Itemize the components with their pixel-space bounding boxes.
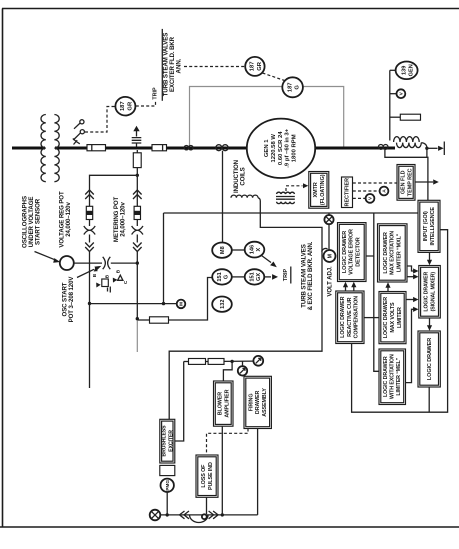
wire [89, 190, 91, 206]
pot P2 lower chevrons [133, 243, 142, 252]
wire logic drawer to loop [428, 387, 430, 412]
wire intelligence line (long horizontal) [164, 212, 419, 214]
node junction dot [162, 302, 165, 305]
node junction dot on reg pot line [88, 302, 91, 305]
svg-text:G: G [295, 85, 301, 90]
pot P1 lower chevrons [85, 243, 94, 252]
relay 187 G [282, 77, 303, 97]
wire bus segment 1 [12, 147, 45, 150]
dashed wires rectifier to meters [353, 182, 397, 184]
wire 151G to 151GX [232, 276, 245, 278]
potentiometer P2 element [134, 206, 140, 219]
svg-text:(FLOATING): (FLOATING) [320, 174, 326, 205]
svg-text:START SENSOR: START SENSOR [35, 198, 42, 245]
generator GEN 1 [247, 119, 315, 178]
svg-text:LOSS OF: LOSS OF [201, 464, 207, 488]
wire reactive comp feedback loop [352, 230, 448, 413]
svg-text:WITH EXCITATION: WITH EXCITATION [390, 354, 396, 399]
svg-text:COILS: COILS [240, 167, 247, 185]
resistor R5 [208, 359, 224, 365]
svg-text:187: 187 [120, 101, 126, 111]
relay 132 [212, 297, 232, 312]
meter (firing feedback 2) [253, 356, 263, 366]
svg-text:RECTIFIER: RECTIFIER [345, 178, 351, 207]
voltage reg pot wiper chevrons [85, 190, 94, 199]
svg-text:EXCITER: EXCITER [168, 430, 174, 452]
wire firing drawer down [257, 429, 259, 515]
wire bus tap down to relay M8 [222, 151, 224, 243]
node junction dot [230, 360, 233, 363]
dashed wire firing drawer to loss of pulse [207, 429, 249, 455]
phase tap cluster A (square) [96, 283, 101, 288]
wire blower amplifier down [221, 426, 223, 515]
wire metering line down [136, 252, 138, 319]
svg-text:132: 132 [220, 300, 226, 309]
wire R2 to 151G chain [169, 278, 213, 321]
svg-text:151: 151 [217, 272, 223, 281]
CT pair at zone left foot [184, 146, 188, 150]
relay 139 GEN [390, 69, 396, 71]
svg-text:M: M [327, 254, 333, 258]
node junction dot (blower) [221, 513, 224, 516]
node junction dot metering line [136, 317, 139, 320]
relay 187 GR (top) [245, 57, 264, 76]
motor M osc start drive [177, 300, 186, 309]
svg-text:VOLTAGE ERROR: VOLTAGE ERROR [349, 229, 355, 275]
svg-text:XMTR: XMTR [313, 182, 319, 197]
potentiometer P1 element [86, 206, 92, 219]
wire metering gray tail [136, 320, 138, 352]
relay 146 X [245, 242, 265, 258]
dashed wire 187GR to TRIP label [136, 101, 156, 107]
node junction dot [136, 174, 139, 177]
wire to meters [224, 360, 253, 362]
node junction dot [425, 147, 428, 150]
svg-text:LIMITER “MXL”: LIMITER “MXL” [397, 233, 403, 272]
generator zone bracket (gray) [190, 87, 344, 148]
box INPUT (GOI) INTELLIGENCE [418, 200, 440, 252]
wire detector output [366, 213, 374, 256]
wire field instrument chain [389, 70, 391, 140]
CT pair at intelligence tap [378, 145, 383, 150]
exciter sub box [160, 465, 175, 475]
wire to volt adj motor [328, 224, 330, 250]
meter V (field) [390, 93, 397, 95]
svg-text:M8: M8 [220, 246, 226, 254]
switch contact foot [73, 139, 80, 145]
transformer T1 secondary winding [54, 115, 59, 182]
box LOGIC DRAWER REACTIVE CUR COMPENSATION [336, 291, 364, 344]
wire junction to voltage reg pot [90, 175, 138, 190]
wire junction down to intelligence wire [426, 148, 428, 157]
resistor R2 [150, 317, 169, 323]
arrow temp rec output [415, 181, 433, 183]
metering pot wiper chevrons [133, 190, 142, 199]
wire connector to metering line [111, 262, 138, 264]
shaft coupling chevrons left [180, 511, 190, 519]
dashed wire switch to relay 187GR [85, 107, 115, 133]
svg-text:& EXC FIELD BKR. ANN.: & EXC FIELD BKR. ANN. [307, 241, 314, 310]
shaft coupling chevrons right [209, 511, 219, 519]
meter (firing feedback 1) [238, 366, 247, 375]
box BLOWER AMPLIFIER [214, 381, 234, 426]
svg-text:1800 RPM: 1800 RPM [291, 134, 297, 162]
underline rule of trip list [161, 29, 163, 101]
svg-text:LOGIC DRAWER: LOGIC DRAWER [383, 356, 389, 397]
dashed wire ann to relay 187GR top [184, 66, 245, 68]
svg-text:GEN FLD: GEN FLD [401, 170, 407, 194]
wire sensor to connector [74, 262, 102, 264]
svg-text:ANN.: ANN. [175, 58, 182, 73]
wire detector output to MEL [374, 256, 379, 371]
phase tap cluster B [94, 267, 98, 271]
undervoltage sensor circle [60, 256, 74, 270]
box XMTR (FLOATING) [309, 172, 329, 209]
shaft coupling arc [190, 515, 209, 523]
svg-text:24,000–120v: 24,000–120v [65, 202, 72, 237]
svg-text:VOLT ADJ.: VOLT ADJ. [327, 266, 334, 297]
svg-text:GEN 1: GEN 1 [264, 139, 270, 157]
svg-text:REACTIVE CUR: REACTIVE CUR [347, 297, 353, 336]
box BRUSHLESS EXCITER [160, 419, 175, 463]
svg-text:LOGIC DRAWER: LOGIC DRAWER [427, 338, 433, 380]
wire to resistor R2 [137, 319, 149, 321]
wire to brushless exciter side [175, 362, 184, 442]
svg-text:BLOWER: BLOWER [218, 392, 224, 416]
pot P2 coupling curls [132, 226, 143, 235]
svg-text:DETECTOR: DETECTOR [355, 237, 361, 266]
svg-text:(SIGNAL MIXER): (SIGNAL MIXER) [430, 272, 436, 312]
resistor R4 [189, 359, 206, 365]
box LOSS OF PULSE IND [196, 455, 218, 497]
svg-text:GEN: GEN [408, 64, 414, 76]
svg-text:GR: GR [127, 101, 133, 111]
svg-text:139: 139 [401, 66, 407, 75]
box LOGIC DRAWER (lower) [418, 331, 440, 387]
svg-text:187: 187 [287, 82, 293, 92]
wire junction to blower amplifier [223, 361, 232, 381]
svg-text:LIMITER: LIMITER [397, 307, 403, 328]
svg-text:PMG: PMG [165, 480, 171, 491]
transformer T1 primary winding [41, 115, 46, 182]
svg-text:LIMITER “MEL”: LIMITER “MEL” [396, 357, 402, 395]
volt adj tap circle [328, 213, 330, 215]
node junction dot [136, 261, 139, 264]
svg-text:AMPLIFIER: AMPLIFIER [224, 389, 230, 417]
arrow signal mixer to logic drawer [429, 318, 431, 327]
svg-text:DRAWER: DRAWER [255, 391, 261, 415]
svg-text:24,000–120v: 24,000–120v [120, 202, 127, 237]
dashed wire PT to XMTR box [286, 186, 303, 191]
relay M8 [212, 243, 232, 258]
svg-text:COMPENSATION: COMPENSATION [354, 296, 360, 339]
svg-text:MAX VOLTS: MAX VOLTS [390, 302, 396, 333]
wire pmg to shaft line [166, 492, 168, 515]
phase tap cluster C (triangle) [113, 278, 118, 283]
svg-text:TRIP: TRIP [153, 87, 159, 100]
wire reactive comp to max volts [364, 317, 379, 319]
generator PMG [161, 479, 174, 492]
generator field winding [394, 137, 420, 142]
box LOGIC DRAWER (SIGNAL MIXER) [419, 266, 441, 319]
box GEN FLD TEMP REC [397, 165, 415, 201]
disconnect switch blade 1 [74, 123, 80, 129]
fuse F2 on bus [152, 145, 167, 151]
svg-text:G: G [224, 275, 230, 279]
svg-text:ASSEMBLY: ASSEMBLY [262, 388, 268, 417]
relay 151 GX [245, 269, 265, 284]
svg-text:LOGIC DRAWER: LOGIC DRAWER [383, 297, 389, 339]
arrow max volts to MXL [387, 288, 389, 293]
wire exciter supply corner [184, 361, 189, 363]
box LOGIC DRAWER VOLTAGE ERROR DETECTOR [338, 223, 367, 282]
disconnect switch blade 2 [73, 133, 80, 140]
border bottom [0, 526, 459, 528]
arrow reactive comp to detector 2 [353, 287, 355, 292]
PT transformer (floating xmtr source) [277, 192, 295, 194]
surge arrester [132, 138, 142, 143]
svg-text:0.60 SCR 24: 0.60 SCR 24 [278, 131, 284, 165]
svg-text:TEMP REC: TEMP REC [407, 168, 413, 196]
meter V (exciter) [366, 194, 375, 203]
svg-text:146: 146 [249, 245, 255, 254]
box LOGIC DRAWER WITH EXCITATION LIMITER MEL [379, 349, 406, 405]
arrow reactive comp to detector 1 [345, 287, 347, 292]
arrow 146X to trip [262, 256, 272, 263]
wire osc start horizontal [90, 303, 177, 305]
svg-text:X: X [256, 247, 262, 251]
svg-text:POT 3–208 120V: POT 3–208 120V [68, 276, 75, 323]
wire bus segment 3 (generator to field coil) [315, 147, 396, 150]
svg-text:INPUT (GOI): INPUT (GOI) [423, 211, 429, 241]
node junction dot (pmg) [166, 513, 169, 516]
relay 151 G [212, 269, 232, 284]
arrow max volts to signal mixer [406, 299, 414, 301]
svg-text:FIRING: FIRING [248, 394, 254, 412]
wire resistor to junction [136, 168, 138, 176]
wire induction coils to exciter feed [169, 198, 322, 419]
wire field to ground [421, 143, 427, 149]
ground (field) [427, 147, 438, 149]
box LOGIC DRAWER MAX EXCITATION LIMITER MXL [378, 224, 408, 282]
CT pair at M8 tap [216, 145, 222, 151]
svg-text:MAX EXCITATION: MAX EXCITATION [390, 231, 396, 275]
box LOGIC DRAWER MAX VOLTS LIMITER [379, 292, 406, 344]
pot P1 coupling curls [84, 226, 95, 235]
meter A (exciter) [380, 187, 389, 196]
svg-text:PULSE IND: PULSE IND [208, 462, 214, 490]
arrow pointer to connector [77, 269, 94, 277]
border top [2, 8, 459, 10]
svg-text:GX: GX [256, 273, 262, 281]
wire metering pot line [136, 175, 138, 190]
arrow input to signal mixer [429, 252, 431, 261]
svg-text:M: M [179, 302, 184, 306]
arrow MEL to signal mixer (riser) [406, 309, 415, 382]
induction coils winding [231, 195, 258, 198]
dashed wire 187GR to 187G [263, 73, 285, 81]
wire voltage-reg line down [89, 252, 91, 389]
svg-text:.9 pf –60 in 3+: .9 pf –60 in 3+ [285, 128, 291, 167]
svg-text:187: 187 [250, 62, 256, 72]
svg-text:GR: GR [257, 61, 263, 71]
arrow label to sensor circle [35, 252, 56, 260]
svg-text:LOGIC DRAWER: LOGIC DRAWER [383, 232, 389, 274]
wire riser to intelligence line [163, 213, 165, 304]
svg-text:LOGIC DRAWER: LOGIC DRAWER [342, 231, 348, 273]
svg-text:TRIP: TRIP [283, 268, 289, 281]
box RECTIFIER [342, 177, 353, 208]
shaft ground circle [150, 510, 161, 521]
box FIRING DRAWER ASSEMBLY [244, 376, 271, 428]
wire bus tap to input intelligence [385, 149, 428, 200]
resistor R1 (metering dropping resistor) [133, 153, 141, 168]
svg-text:A: A [382, 189, 388, 193]
resistor R3 (field) [390, 116, 401, 118]
svg-text:BRUSHLESS: BRUSHLESS [162, 425, 168, 457]
arrow 151GX to trip [264, 276, 271, 278]
connector break symbol [103, 257, 111, 269]
fuse F1 on bus [87, 145, 106, 151]
svg-text:1220.58 W: 1220.58 W [271, 134, 277, 163]
border left [2, 9, 4, 528]
wire M8 to 146X [232, 249, 245, 251]
svg-text:151: 151 [249, 272, 255, 281]
relay 187 GR (left) [115, 97, 135, 116]
svg-text:LOGIC DRAWER: LOGIC DRAWER [340, 296, 346, 338]
arrow MXL to signal mixer 2 [407, 276, 414, 278]
wire loss of pulse to shaft [206, 497, 208, 514]
svg-text:LOGIC DRAWER: LOGIC DRAWER [424, 271, 430, 311]
wire shaft line [160, 514, 257, 516]
wire bus segment 2 (transformer to generator) [55, 147, 248, 150]
arrow MXL to signal mixer 1 [407, 266, 414, 271]
motor M volt adjust [324, 250, 336, 262]
svg-text:INTELLIGENCE: INTELLIGENCE [430, 207, 436, 246]
